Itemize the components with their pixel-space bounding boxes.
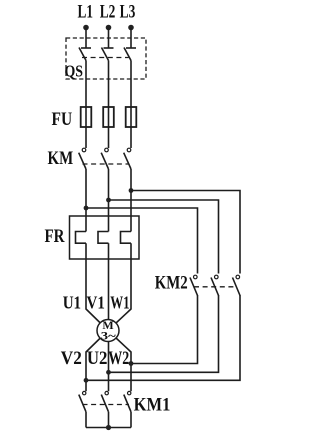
node junction U-branch — [84, 206, 89, 211]
svg-text:V1: V1 — [87, 292, 105, 312]
thermal overload relay FR — [45, 216, 140, 259]
wire L3 to QS — [130, 28, 132, 49]
node L2 — [100, 2, 116, 31]
node junction W-branch — [129, 188, 134, 193]
wire FR to motor U1 — [86, 243, 108, 330]
wire KM to FR phase2 — [108, 169, 110, 232]
wire QS to FU phase1 — [85, 61, 87, 149]
svg-text:W2: W2 — [108, 348, 129, 369]
node star point — [106, 425, 111, 430]
wire star point bar — [86, 427, 131, 429]
svg-text:W1: W1 — [110, 292, 129, 312]
svg-text:KM1: KM1 — [134, 395, 171, 416]
node junction V2 — [84, 378, 89, 383]
motor M 3~ — [61, 292, 130, 369]
svg-text:U2: U2 — [87, 348, 108, 369]
svg-text:L3: L3 — [120, 2, 136, 23]
svg-text:QS: QS — [65, 62, 84, 81]
svg-text:L1: L1 — [78, 2, 94, 23]
wire KM2 pole2 to U2 — [109, 295, 219, 372]
wire QS to FU phase2 — [108, 61, 110, 149]
wire FR to motor W1 — [108, 243, 131, 330]
disconnect switch QS — [65, 38, 147, 81]
wire motor V2 down — [86, 331, 108, 392]
wire KM1 pole2 to star bar — [108, 412, 110, 428]
svg-text:KM2: KM2 — [155, 273, 188, 294]
node junction U2 — [106, 370, 111, 375]
contactor star contacts KM1 — [79, 391, 171, 415]
node junction V-branch — [106, 198, 111, 203]
wire motor U2 down — [108, 331, 110, 392]
wire QS to FU phase3 — [130, 61, 132, 149]
fuse FU — [52, 107, 137, 130]
svg-text:KM: KM — [48, 148, 74, 169]
contactor main contacts KM — [48, 148, 132, 169]
node junction W2 — [129, 361, 134, 366]
contactor delta contacts KM2 — [155, 273, 240, 296]
wire KM to FR phase1 — [85, 169, 87, 232]
node L3 — [120, 2, 136, 31]
wire branch U1 to KM2 pole1 — [86, 208, 198, 274]
wire branch V1 to KM2 pole2 — [109, 200, 219, 274]
wire motor W2 down — [108, 331, 131, 392]
svg-text:FU: FU — [52, 109, 73, 130]
svg-text:FR: FR — [45, 226, 65, 247]
wire KM1 pole3 to star bar — [130, 412, 132, 428]
wire FR to motor V1 — [108, 243, 110, 330]
svg-text:L2: L2 — [100, 2, 116, 23]
svg-text:V2: V2 — [61, 348, 82, 369]
wire L1 to QS — [85, 28, 87, 49]
wire KM2 pole3 to V2 — [86, 295, 240, 380]
wire branch W1 to KM2 pole3 — [131, 191, 240, 274]
wire KM1 pole1 to star bar — [85, 412, 87, 428]
svg-text:3~: 3~ — [101, 329, 117, 343]
wire KM2 pole1 to W2 — [131, 295, 198, 364]
node L1 — [78, 2, 94, 31]
svg-text:U1: U1 — [63, 292, 81, 312]
wire L2 to QS — [108, 28, 110, 49]
wire KM to FR phase3 — [130, 169, 132, 232]
